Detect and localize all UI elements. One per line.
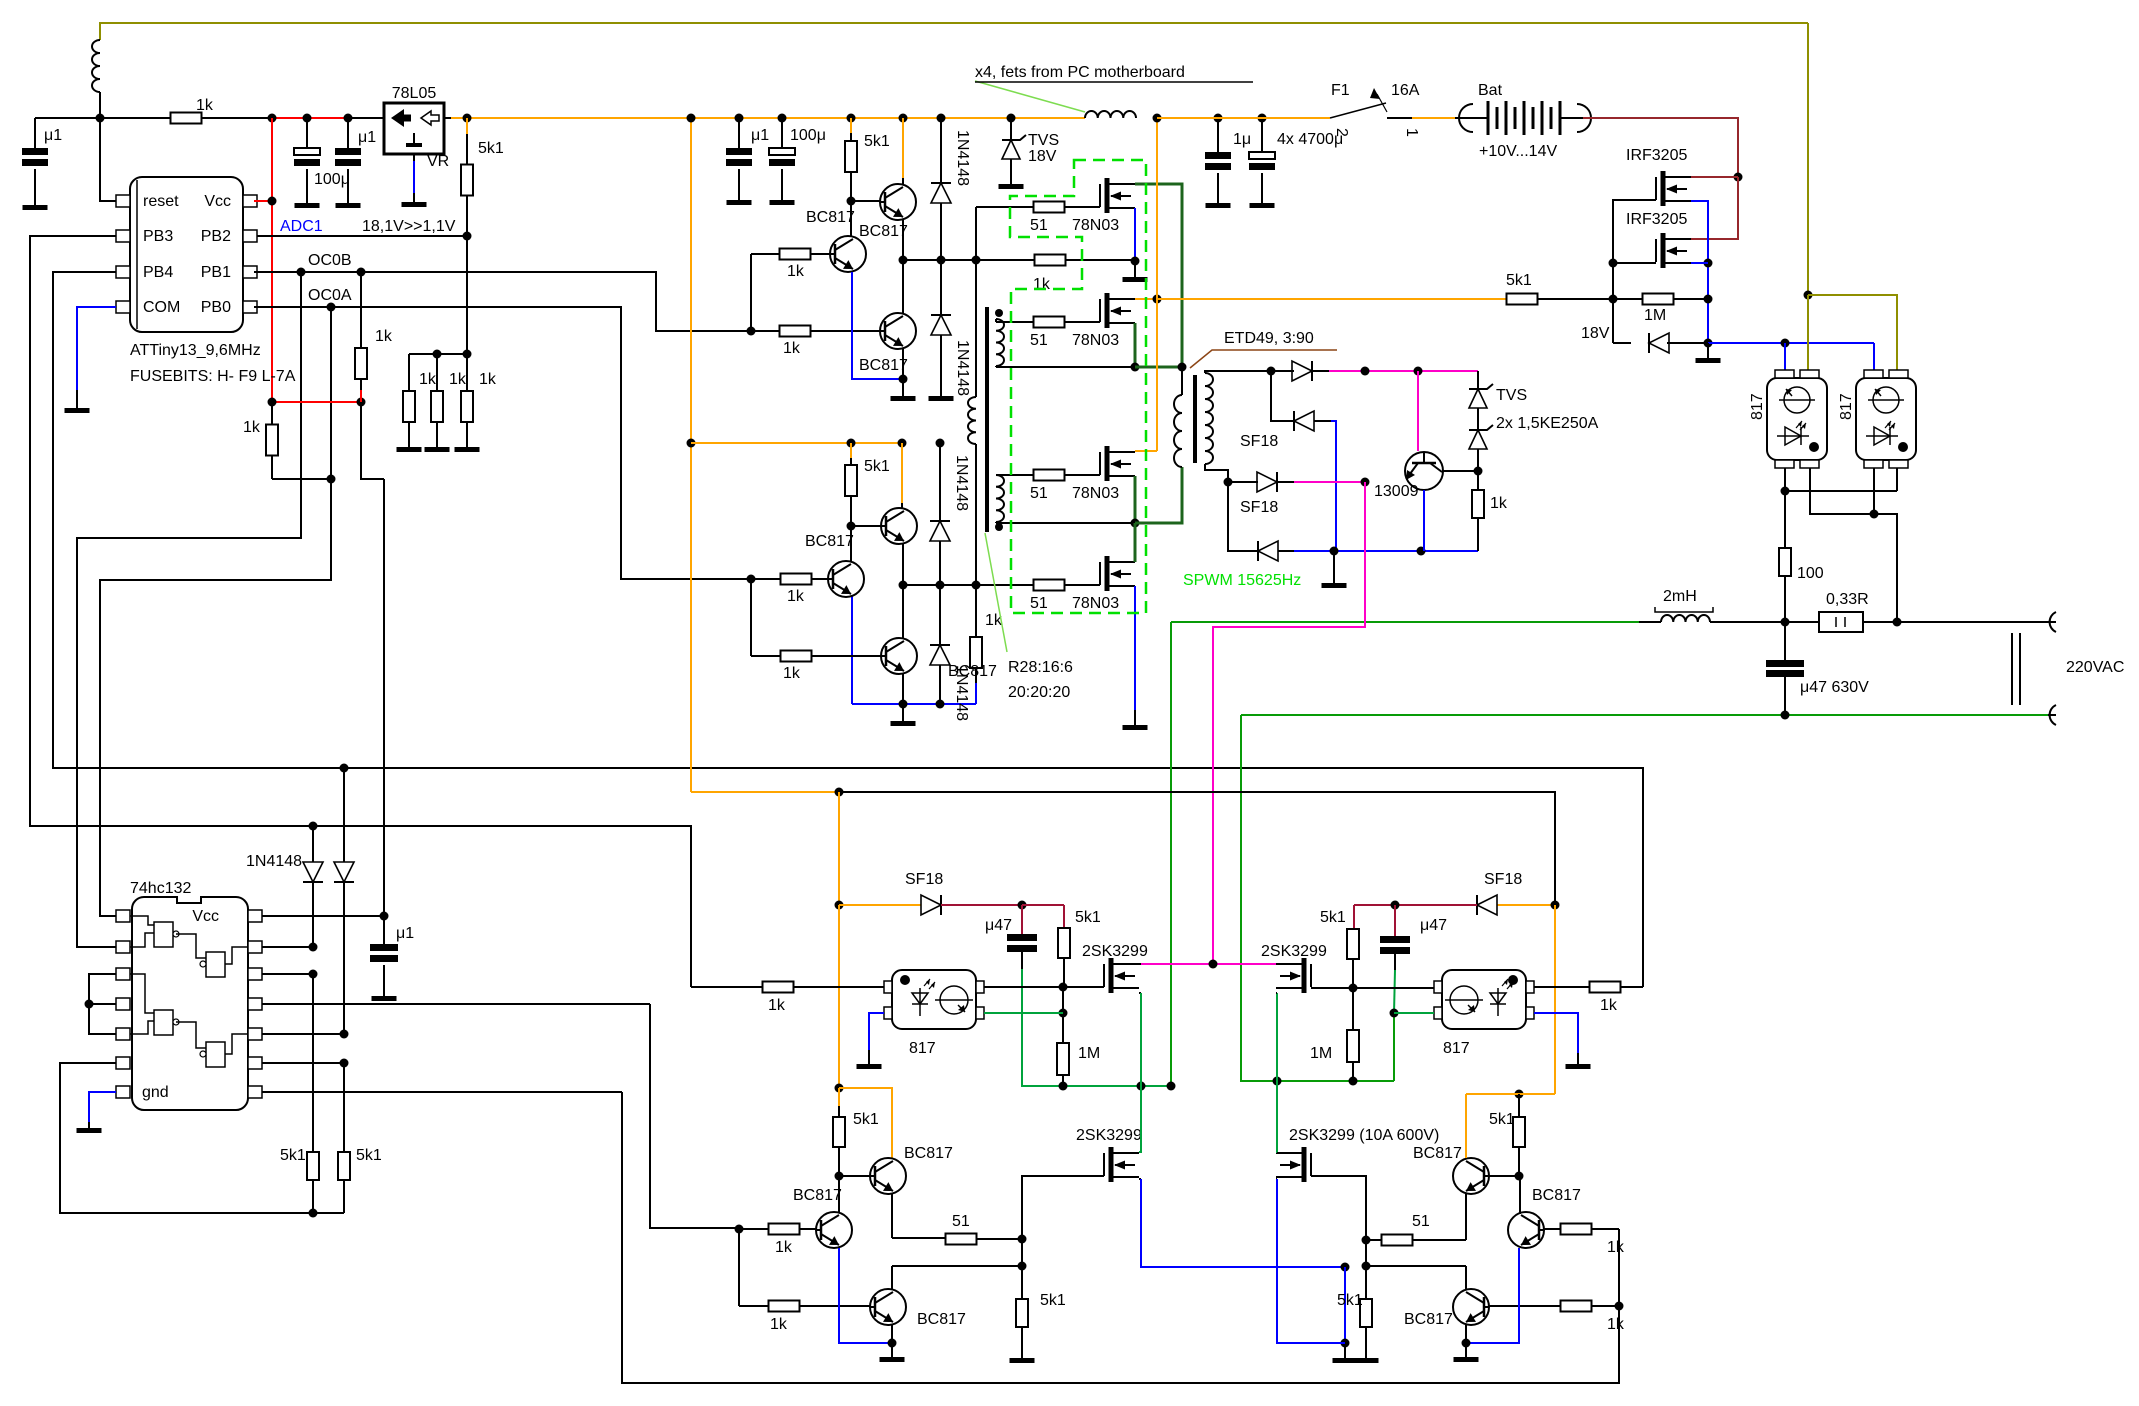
optocoupler 817 right B <box>1856 378 1916 460</box>
svg-text:1k: 1k <box>1607 1239 1625 1256</box>
wire 1k to left opto <box>763 982 794 993</box>
capacitor 1u <box>1214 114 1223 123</box>
svg-text:5k1: 5k1 <box>853 1111 879 1128</box>
regulator VR 78L05 <box>348 117 384 119</box>
svg-text:PB2: PB2 <box>201 228 231 245</box>
wire trio4 right vertical <box>1618 1229 1620 1306</box>
wire green ac line <box>1171 621 1639 623</box>
wire UR drain pink <box>1276 963 1278 965</box>
svg-text:SPWM 15625Hz: SPWM 15625Hz <box>1183 572 1301 589</box>
capacitor 100u mid <box>778 114 787 123</box>
transistor Q4 BC817 trio2 top <box>898 439 907 448</box>
svg-text:1k: 1k <box>479 371 497 388</box>
svg-text:TVS: TVS <box>1496 387 1527 404</box>
resistor 1M right driver <box>1352 988 1354 1030</box>
node J1 <box>96 114 105 123</box>
wire blue trio3 <box>839 1248 892 1343</box>
svg-text:18,1V>>1,1V: 18,1V>>1,1V <box>362 218 456 235</box>
wire orange trio3 <box>839 1088 892 1158</box>
svg-text:gnd: gnd <box>142 1084 169 1101</box>
resistor 51 M3 <box>1034 470 1065 481</box>
wire LL gate <box>1022 1176 1104 1240</box>
svg-text:5k1: 5k1 <box>1075 909 1101 926</box>
wire blue 13009 emitter <box>1423 490 1425 551</box>
wire UR source green <box>1276 993 1278 1152</box>
mosfet M2 78N03 <box>1105 293 1110 328</box>
svg-text:1μ: 1μ <box>1233 131 1251 148</box>
svg-text:51: 51 <box>1030 332 1048 349</box>
wire gdt primary column <box>975 207 977 397</box>
wire row orange drop to SF18 <box>838 792 840 905</box>
wire trio4 collector row <box>1465 1266 1467 1289</box>
diode 1N4148 right col <box>343 768 345 862</box>
svg-text:51: 51 <box>1030 595 1048 612</box>
transformer ETD49 secondary <box>1205 373 1213 464</box>
svg-text:reset: reset <box>143 193 179 210</box>
svg-text:BC817: BC817 <box>1413 1145 1462 1162</box>
wire OC0A branch to 74hc132 pin1 <box>100 307 331 916</box>
wire UR gate <box>1311 987 1353 989</box>
resistor 1k 13009 <box>1477 471 1479 490</box>
svg-text:0,33R: 0,33R <box>1826 591 1869 608</box>
wire OC0B from PB1 <box>254 272 751 331</box>
resistor 51 M4 <box>1034 580 1065 591</box>
diode zener 18V gate protect <box>1612 299 1614 343</box>
resistor 1k trio1 upper <box>780 249 811 260</box>
svg-text:BC817: BC817 <box>1532 1187 1581 1204</box>
wire stepdown to u1 cap column <box>383 479 385 916</box>
wire ADC sense row <box>254 235 467 237</box>
svg-text:51: 51 <box>1412 1213 1430 1230</box>
svg-text:1k: 1k <box>1490 495 1508 512</box>
svg-text:51: 51 <box>1030 485 1048 502</box>
wire blue bottom rail 13009 <box>1278 550 1294 552</box>
svg-text:μ47: μ47 <box>1420 917 1447 934</box>
svg-text:PB0: PB0 <box>201 299 231 316</box>
transistor Q3 BC817 trio1 bottom <box>880 313 916 349</box>
svg-text:18V: 18V <box>1581 325 1610 342</box>
wire maroon left <box>941 904 1022 906</box>
callout x4 fets <box>975 81 1085 112</box>
diode SF18 sec4 <box>1228 482 1258 551</box>
wire blue trio1 <box>852 272 903 379</box>
capacitor u1 top-left <box>34 118 36 148</box>
MCU U1 ATTiny13 <box>130 177 243 332</box>
svg-text:μ1: μ1 <box>358 129 376 146</box>
resistor 51 M1 <box>1034 202 1065 213</box>
svg-text:+10V...14V: +10V...14V <box>1479 143 1557 160</box>
diode 1N4148 trio1 b <box>931 315 951 335</box>
ac plug lines <box>2011 633 2013 705</box>
svg-text:1k: 1k <box>1600 997 1618 1014</box>
wire right opto BR blue gnd <box>1534 1013 1578 1053</box>
svg-text:PB3: PB3 <box>143 228 173 245</box>
wire LL drain green <box>1139 1086 1141 1152</box>
resistor 1k trio2 lower <box>781 651 812 662</box>
resistor 5k1 left driver <box>1063 905 1065 927</box>
svg-text:1k: 1k <box>783 340 801 357</box>
74hc132 pin3-5 tie <box>89 974 116 1034</box>
svg-text:5k1: 5k1 <box>478 140 504 157</box>
resistor 1k trio3 lower <box>769 1301 800 1312</box>
svg-text:5k1: 5k1 <box>864 133 890 150</box>
svg-text:51: 51 <box>1030 217 1048 234</box>
svg-text:817: 817 <box>909 1040 936 1057</box>
wire right SF18 orange <box>1497 904 1555 906</box>
wire emitter row trio2 <box>902 543 904 585</box>
wire LR drain green <box>1276 1151 1277 1153</box>
capacitor u47 right <box>1394 905 1396 936</box>
74hc132 pin6 row <box>60 1063 344 1213</box>
resistor 100 <box>1779 548 1791 576</box>
svg-text:1k: 1k <box>787 588 805 605</box>
wire orange to fuse <box>1157 117 1330 119</box>
transistor Q11 BC817 trio4 top <box>1453 1158 1489 1194</box>
svg-text:2SK3299: 2SK3299 <box>1076 1127 1142 1144</box>
svg-text:1k: 1k <box>775 1239 793 1256</box>
svg-text:1M: 1M <box>1310 1045 1332 1062</box>
svg-text:BC817: BC817 <box>904 1145 953 1162</box>
wire OC0B branch to 74hc132 pin2 <box>77 272 301 947</box>
svg-text:20:20:20: 20:20:20 <box>1008 684 1070 701</box>
svg-text:IRF3205: IRF3205 <box>1626 147 1687 164</box>
svg-text:1k: 1k <box>1607 1316 1625 1333</box>
resistor 1k gdt lower <box>975 585 977 637</box>
wire orange bus2 <box>691 442 902 444</box>
wire feed row trio4 <box>622 1092 1619 1383</box>
inductor L1 top-left <box>92 40 100 92</box>
svg-text:SF18: SF18 <box>905 871 943 888</box>
wire PB4 net <box>53 272 1643 987</box>
resistor 51 trio3 <box>946 1234 977 1245</box>
wire OC0A from PB0 <box>254 307 751 579</box>
svg-text:2SK3299: 2SK3299 <box>1082 943 1148 960</box>
wire 51 row M1 <box>976 206 1034 208</box>
resistor 1k trio2 upper <box>781 574 812 585</box>
svg-text:TVS: TVS <box>1028 132 1059 149</box>
resistor 1M IRF gate-source <box>1643 294 1674 305</box>
callout R28 ratio <box>985 533 1007 652</box>
svg-text:1k: 1k <box>375 328 393 345</box>
IC U2 74hc132 <box>132 897 248 1110</box>
inductor main choke <box>1085 111 1136 118</box>
mosfet M3 78N03 <box>1105 446 1110 481</box>
wire blue trio2 bottom row <box>975 683 977 704</box>
NAND gates inside <box>154 922 173 947</box>
wire UL drain pink <box>1139 963 1141 965</box>
svg-text:78N03: 78N03 <box>1072 332 1119 349</box>
svg-text:Vcc: Vcc <box>192 908 219 925</box>
transistor Q9 BC817 trio3 middle <box>816 1212 852 1248</box>
svg-text:51: 51 <box>952 1213 970 1230</box>
transistor Q7 13009 <box>1405 452 1443 490</box>
svg-text:PB1: PB1 <box>201 264 231 281</box>
wire LR source blue <box>1276 1178 1277 1180</box>
transformer T1 secondary lower <box>996 475 1004 522</box>
svg-text:BC817: BC817 <box>859 357 908 374</box>
svg-text:1M: 1M <box>1078 1045 1100 1062</box>
svg-text:x4, fets from PC motherboard: x4, fets from PC motherboard <box>975 64 1185 81</box>
wire battery maroon <box>1583 118 1738 177</box>
optocoupler 817 left driver <box>892 970 976 1029</box>
wire trio4 emitter row <box>1465 1194 1467 1240</box>
svg-text:BC817: BC817 <box>805 533 854 550</box>
inductor 2mH <box>1661 615 1710 622</box>
wire orange bus drop <box>690 118 692 792</box>
svg-text:BC817: BC817 <box>806 209 855 226</box>
mosfet M1 78N03 <box>1105 178 1110 213</box>
wire left opto BR green <box>984 1012 1063 1014</box>
svg-text:ETD49, 3:90: ETD49, 3:90 <box>1224 330 1314 347</box>
svg-text:2x 1,5KE250A: 2x 1,5KE250A <box>1496 415 1599 432</box>
wire blue sec2 <box>1314 420 1331 422</box>
node ADC 5k1 <box>463 114 472 123</box>
green dashed SPWM outline <box>1010 160 1146 613</box>
wire right opto LED green <box>1394 1012 1434 1014</box>
resistor 5k1 trio1 <box>847 114 856 123</box>
wire reset <box>100 118 116 201</box>
wire M3 source dark green <box>1134 476 1137 523</box>
svg-text:18V: 18V <box>1028 148 1057 165</box>
wire red Vcc pin <box>254 200 272 202</box>
svg-text:VR: VR <box>427 153 449 170</box>
capacitor u47 left <box>1021 905 1023 934</box>
svg-text:OC0A: OC0A <box>308 287 352 304</box>
wires under right optos <box>1784 468 1786 548</box>
svg-text:SF18: SF18 <box>1484 871 1522 888</box>
diode TVS 2x15KE250A upper <box>1477 371 1479 389</box>
resistor 1k trio1 lower <box>780 326 811 337</box>
wire LL source blue <box>1139 1178 1141 1180</box>
svg-text:BC817: BC817 <box>917 1311 966 1328</box>
svg-text:Vcc: Vcc <box>204 193 231 210</box>
wire orange trio4 collector <box>1465 1094 1467 1158</box>
svg-text:100μ: 100μ <box>314 171 350 188</box>
resistor 1k top-left <box>171 113 202 124</box>
wire PB3 net <box>30 236 691 987</box>
wire LR gate <box>1311 1176 1366 1240</box>
svg-text:2SK3299 (10A 600V): 2SK3299 (10A 600V) <box>1289 1127 1439 1144</box>
svg-text:1k: 1k <box>243 419 261 436</box>
wire main 12V rail left <box>35 117 171 119</box>
svg-text:78L05: 78L05 <box>392 85 437 102</box>
svg-text:1k: 1k <box>419 371 437 388</box>
svg-text:μ47: μ47 <box>985 917 1012 934</box>
diode TVS 2x15KE250A lower <box>1469 430 1487 449</box>
transformer T1 secondary upper <box>996 319 1004 366</box>
wire red PWM supply row <box>272 401 361 403</box>
svg-text:1N4148: 1N4148 <box>246 853 302 870</box>
wire green left cap <box>1021 952 1023 969</box>
wire trio2 left vertical <box>750 579 752 656</box>
mosfet M4 78N03 <box>1105 556 1110 591</box>
svg-text:μ47 630V: μ47 630V <box>1800 679 1869 696</box>
transistor Q13 BC817 trio4 bottom <box>1453 1289 1489 1325</box>
resistor 1k OC0B pullup <box>360 272 362 349</box>
svg-text:PB4: PB4 <box>143 264 173 281</box>
svg-text:16A: 16A <box>1391 82 1420 99</box>
resistor 51 trio4 <box>1382 1235 1413 1246</box>
optocoupler 817 right A <box>1767 378 1827 460</box>
svg-text:1N4148: 1N4148 <box>954 340 971 396</box>
wire row 792 orange-black <box>691 791 839 793</box>
svg-text:5k1: 5k1 <box>280 1147 306 1164</box>
wire orange gate feed 5k1 <box>1157 298 1507 300</box>
capacitor u1 74hc132 <box>383 916 385 944</box>
wire trio3 emitter row <box>891 1194 893 1238</box>
74hc132 right rows <box>262 915 384 917</box>
svg-text:100: 100 <box>1797 565 1824 582</box>
resistor 1k trio4 lower <box>1561 1301 1592 1312</box>
svg-text:SF18: SF18 <box>1240 499 1278 516</box>
resistor 5k1 right col <box>338 1152 350 1180</box>
resistor 5k1 trio2 <box>847 439 856 448</box>
ground trio3 <box>891 1325 893 1343</box>
transformer T1 core <box>985 307 989 532</box>
svg-text:COM: COM <box>143 299 180 316</box>
wire right opto BL <box>1353 987 1434 989</box>
resistors 3x 1k pulldown bank <box>409 353 467 355</box>
diode SF18 sec2 <box>1271 371 1294 421</box>
resistor 5k1 ADC divider <box>466 134 468 165</box>
wire 51 row M4 <box>903 584 976 586</box>
svg-text:2mH: 2mH <box>1663 588 1697 605</box>
wire IRF gates <box>1613 200 1656 263</box>
svg-text:78N03: 78N03 <box>1072 217 1119 234</box>
capacitor u1 by 78L05 <box>347 118 349 148</box>
svg-text:5k1: 5k1 <box>1506 272 1532 289</box>
wire trio3 feed <box>650 1004 739 1228</box>
svg-text:BC817: BC817 <box>1404 1311 1453 1328</box>
capacitor 4x4700u <box>1258 114 1267 123</box>
resistor 5k1 trio4 <box>1518 1094 1520 1106</box>
svg-text:μ1: μ1 <box>751 127 769 144</box>
resistor 5k1 low-right gate <box>1365 1266 1367 1299</box>
terminal 220VAC bottom <box>2050 705 2056 725</box>
svg-text:5k1: 5k1 <box>356 1147 382 1164</box>
svg-text:817: 817 <box>1749 393 1766 420</box>
svg-text:1k: 1k <box>1033 276 1051 293</box>
svg-text:OC0B: OC0B <box>308 252 352 269</box>
wire trio3 left vertical <box>738 1229 740 1306</box>
wire left opto TR <box>984 986 1063 988</box>
wire maroon right <box>1354 904 1477 906</box>
wire olive to optos <box>1807 23 1809 295</box>
diode SF18 right driver <box>1477 895 1497 915</box>
wire 1k to right opto <box>1590 982 1621 993</box>
svg-text:5k1: 5k1 <box>1320 909 1346 926</box>
svg-text:SF18: SF18 <box>1240 433 1278 450</box>
wire olive top bus <box>100 23 1808 40</box>
transistor Q8 BC817 trio3 top <box>870 1158 906 1194</box>
svg-text:2SK3299: 2SK3299 <box>1261 943 1327 960</box>
svg-text:220VAC: 220VAC <box>2066 659 2124 676</box>
svg-text:1: 1 <box>1403 128 1420 137</box>
svg-text:BC817: BC817 <box>859 223 908 240</box>
diode 1N4148 trio2 a <box>939 443 941 521</box>
diode SF18 left driver <box>839 904 921 906</box>
wire UL gate <box>1063 986 1104 988</box>
transistor Q5 BC817 trio2 middle <box>828 561 864 597</box>
svg-text:1M: 1M <box>1644 307 1666 324</box>
wire M4 source blue to gnd <box>1134 586 1136 710</box>
resistor 51 M2 <box>1034 317 1065 328</box>
svg-text:1N4148: 1N4148 <box>953 665 970 721</box>
svg-text:5k1: 5k1 <box>864 458 890 475</box>
wire COM blue to ground <box>77 307 116 390</box>
resistor 5k1 trio3 <box>838 1088 840 1106</box>
transistor Q2 BC817 trio1 middle <box>830 236 866 272</box>
svg-text:5k1: 5k1 <box>1337 1292 1363 1309</box>
wire M1 source blue <box>1134 208 1136 226</box>
wire blue zener row to optos <box>1708 342 1874 344</box>
svg-text:1k: 1k <box>449 371 467 388</box>
svg-text:817: 817 <box>1443 1040 1470 1057</box>
74hc132 gnd blue <box>89 1092 116 1122</box>
optocoupler 817 right driver <box>1442 970 1526 1029</box>
svg-text:1N4148: 1N4148 <box>954 130 971 186</box>
wire green ac neutral <box>1241 714 1778 716</box>
svg-text:817: 817 <box>1838 393 1855 420</box>
wire green right cap <box>1394 954 1396 970</box>
wire orange 12V bus <box>444 117 451 119</box>
wire pink 13009 base <box>1417 371 1419 451</box>
svg-text:78N03: 78N03 <box>1072 485 1119 502</box>
transistor Q12 BC817 trio4 middle <box>1508 1212 1544 1248</box>
wire red Vcc net <box>272 117 348 119</box>
transformer ETD49 core <box>1193 375 1197 463</box>
diode 1N4148 trio2 b <box>930 645 950 665</box>
svg-text:μ1: μ1 <box>44 127 62 144</box>
svg-text:1k: 1k <box>768 997 786 1014</box>
wire pink to SPWM drive <box>1213 482 1365 964</box>
capacitor u1 mid <box>735 114 744 123</box>
resistor 5k1 right driver <box>1347 929 1359 959</box>
svg-text:13009: 13009 <box>1374 483 1419 500</box>
transistor Q10 BC817 trio3 bottom <box>870 1289 906 1325</box>
wire M2 drain orange <box>1135 298 1157 300</box>
wire green neutral drop <box>1241 715 1394 1081</box>
svg-text:R28:16:6: R28:16:6 <box>1008 659 1073 676</box>
resistor 1k gdt M1 <box>1035 255 1066 266</box>
wire M3 drain orange feed <box>1156 118 1158 451</box>
transformer ETD49 primary <box>1181 367 1183 395</box>
svg-text:1k: 1k <box>770 1316 788 1333</box>
svg-text:1k: 1k <box>783 665 801 682</box>
wire pink sec3 <box>1277 481 1294 483</box>
wire UL source green <box>1139 992 1141 994</box>
svg-text:ADC1: ADC1 <box>280 218 323 235</box>
resistor 1k below Vcc node <box>271 402 273 425</box>
svg-text:IRF3205: IRF3205 <box>1626 211 1687 228</box>
transistor Q1 BC817 trio1 top <box>899 114 908 123</box>
svg-text:5k1: 5k1 <box>1040 1292 1066 1309</box>
resistor 1k trio4 upper <box>1561 1224 1592 1235</box>
terminal 220VAC top <box>2050 612 2056 632</box>
resistor 5k1 low-left gate <box>1021 1266 1023 1299</box>
wire emitter row trio1 <box>902 219 904 260</box>
wire M4 drain dark green <box>1134 523 1137 562</box>
svg-text:5k1: 5k1 <box>1489 1111 1515 1128</box>
ground trio4 <box>1465 1325 1467 1343</box>
wire trio1 left vertical <box>750 254 752 331</box>
svg-text:100μ: 100μ <box>790 127 826 144</box>
resistor 5k1 left col <box>307 1152 319 1180</box>
svg-text:Bat: Bat <box>1478 82 1503 99</box>
diode SF18 sec1 <box>1292 361 1312 381</box>
wire trio2 ground <box>902 673 904 704</box>
svg-text:1k: 1k <box>196 97 214 114</box>
